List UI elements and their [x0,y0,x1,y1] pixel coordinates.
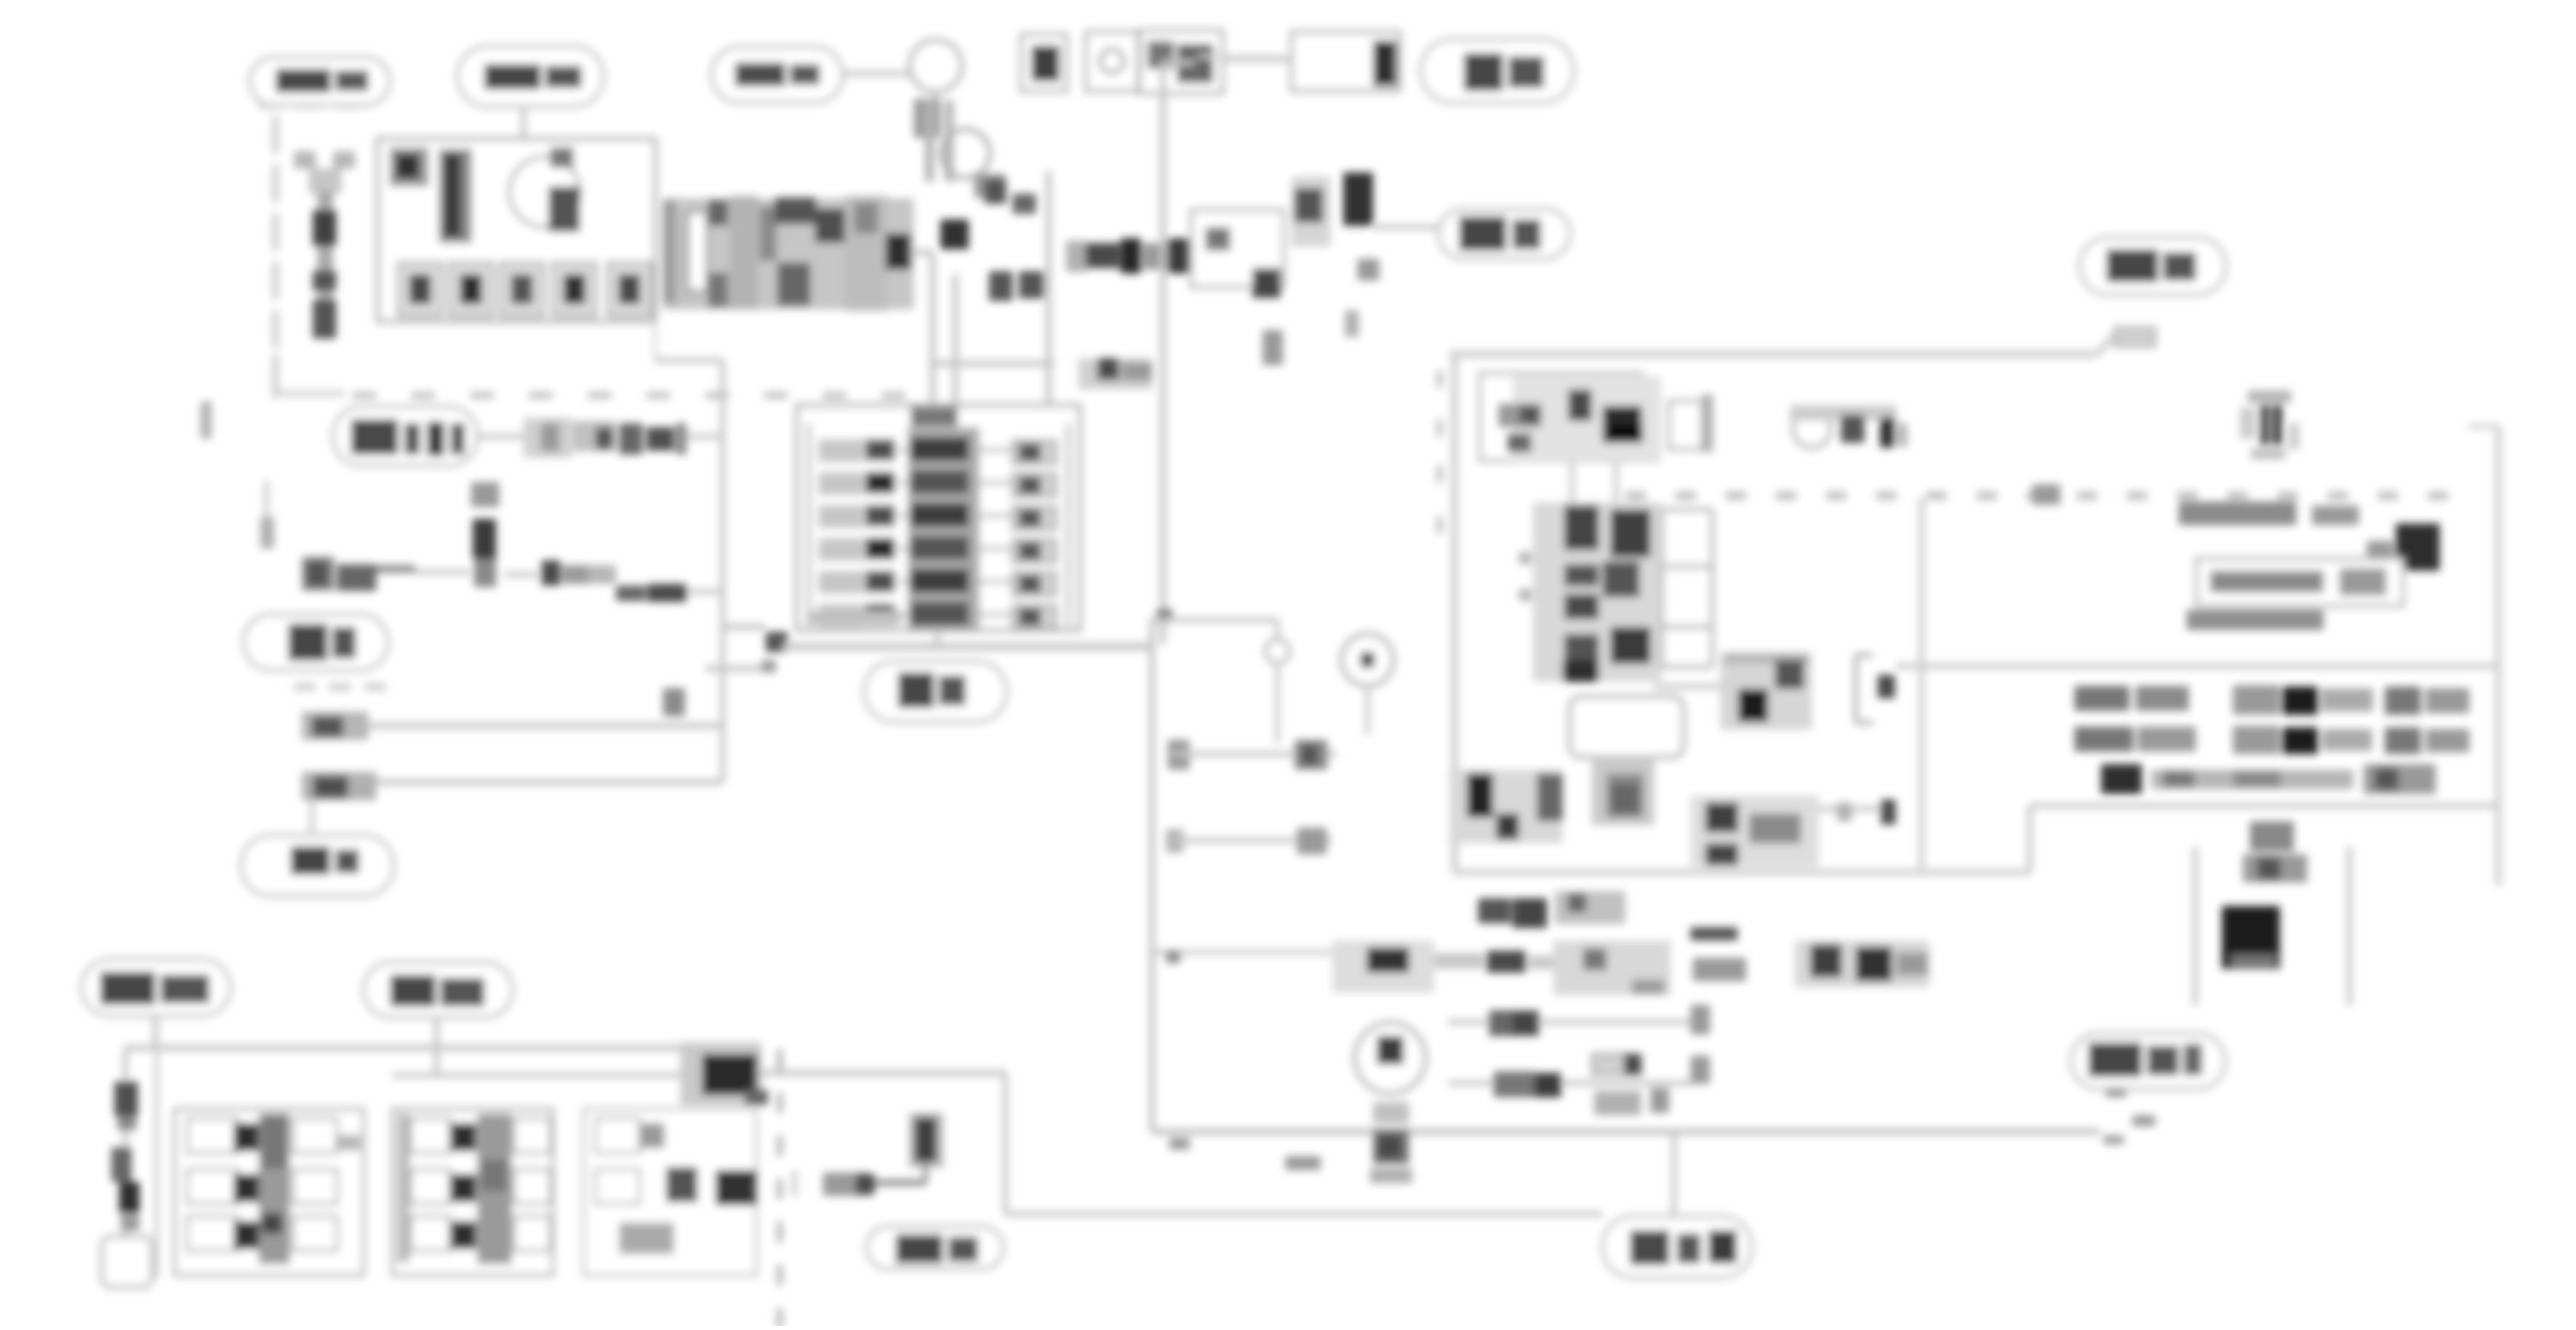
bracket rail right [1045,171,1052,405]
wire from starter to bracket [911,249,934,255]
wire below lamp E1 [914,92,940,138]
instrument cluster right column blobs [1603,509,1650,664]
horn component [2240,390,2299,459]
fuse box center column [908,427,980,629]
riser wires into instrument cluster [1572,461,1616,502]
gauge circle with mark [1342,634,1393,735]
connector label oval B14 [1439,209,1570,259]
chain below frame part5 [1795,940,1929,988]
connector label oval B88 [458,46,603,107]
oval label B101 bottom right [2071,1034,2225,1089]
gray square unit [1592,756,1654,825]
wire stub below oval B88 [521,107,527,141]
bottom wire to oval B125 area [1005,1212,1603,1217]
frame top wire [1450,351,2097,358]
instrument cluster left column blobs [1563,506,1599,682]
inline blobs on left edge [111,1082,139,1230]
dark wire segment to riser [616,584,723,602]
wire row2 to riser [368,723,723,729]
bracket rail left [929,255,936,405]
inline component T1 [524,418,572,458]
junction riser wire [720,361,726,782]
wire from lower cluster [1819,799,1896,824]
connector label oval ST50 [2080,237,2226,295]
row wire y1304 [1448,1005,1710,1036]
inline connector X9 [542,560,588,585]
ECU box A outline [378,139,655,321]
junction blob on riser [1157,609,1172,623]
wire to junction riser [687,434,723,440]
junction box C1 [175,1109,364,1275]
dark switch bar S2 [1343,172,1379,337]
frame left vertical [1451,354,1458,872]
dashed wire row right [1625,491,2448,500]
ECU internal circle [509,157,580,227]
indicator circle E5 [1266,640,1289,663]
dark blob below distributor [940,219,969,249]
lower right cluster [1690,795,1819,867]
inner vertical divider [1919,498,1925,868]
wire pair row2 [1166,828,1332,854]
row wire y1382 [1448,1056,1710,1097]
wire junction to corner [762,1070,1005,1076]
long vertical feed wire [1163,63,1194,644]
sender cluster row2 [302,712,368,740]
connector label oval B86 [244,614,388,670]
small cluster below [1594,1088,1669,1115]
marks below oval B101 [2103,1089,2155,1144]
wire cluster to relay [1654,684,1720,690]
long wire to right edge [1896,663,2498,669]
oval label B98 [867,1227,1003,1269]
ground dark blob [2222,906,2280,969]
left vertical edge [123,1048,129,1237]
connector label oval B87 [241,835,393,896]
connector label oval B46X [250,57,389,105]
vertical leader above E11 [260,480,274,549]
fuse box top blob [911,408,958,426]
small box row [1592,1054,1641,1075]
oval label B125 [1603,1216,1752,1277]
parallel leader line [154,1016,159,1277]
switch box S1 [1021,34,1067,91]
connector stack below gauge [1370,1102,1412,1183]
legend dark swatch [2367,524,2440,571]
inline connector row W1 [1066,238,1190,274]
oval label J6 below fuse box [864,661,1006,722]
junction box C3 partial [584,1109,756,1275]
wire from S2 to oval B14 [1373,225,1439,230]
ground symbol label AU [2243,821,2307,882]
blobs on bottom bus [1169,1138,1321,1170]
wire from riser to chain [1152,951,1348,963]
ground cluster E11 [302,556,376,591]
ignition switch with key [1790,405,1908,448]
legend row3 [2101,764,2436,794]
ECU bottom connector row [398,263,651,316]
lamp circle E1 [910,40,962,92]
chain below frame part2 [1332,940,1555,993]
junction box C1 center column [259,1114,290,1264]
connector label oval B57 [1421,39,1574,103]
bracket bottom bar [929,361,1055,367]
junction box C2 rows [397,1114,550,1263]
ECU internal dark mark [549,187,580,232]
short dashed wire top right [1198,55,1283,59]
legend row2 [2074,726,2469,754]
component K3 [1292,176,1331,247]
small rounded box bottom left [102,1237,152,1287]
relay box K2 [1191,210,1284,298]
legend box [2197,559,2403,606]
fuse box bottom inner bar [806,611,902,625]
sensor box with circle B2 [1086,32,1138,91]
bracket blobs [989,271,1044,301]
dashed leader from oval B46X [272,116,345,398]
wire to indicator circle [1152,620,1277,639]
starter output dark terminal [886,234,911,270]
fuse box left inner rail [806,423,811,627]
relay lower middle [909,1113,944,1168]
junction dark cluster [680,1042,768,1105]
stub to oval B125 [1672,1132,1677,1216]
inline connector X8 [619,423,687,455]
cluster above fuse box right [1078,358,1152,390]
wire from B70M to lamp [842,71,911,77]
ground leader wires [2195,846,2350,1006]
branch wire below junction [705,660,776,672]
wire from B8 [505,572,539,578]
chain below frame part1 [1478,891,1625,928]
rounded unit box [1570,697,1683,757]
bus junction blob [766,632,788,652]
chain below frame part4 [1690,927,1746,981]
small white box right of switch [1669,401,1702,449]
oval label B92 [364,962,513,1017]
legend dash blob [2032,484,2060,505]
connector label oval B211 [333,407,477,466]
flasher relay cluster [1449,770,1563,843]
stub to oval B87 [310,800,314,835]
combination switch left blobs [1498,404,1542,452]
wire below indicator [1275,663,1280,743]
component box K9 [1139,31,1223,93]
starter motor M1 body [663,196,914,311]
relay K6 cluster [1720,653,1812,730]
bracket connector right [1856,655,1895,723]
frame bottom wire [1455,806,2498,872]
main horizontal bus [723,624,766,630]
stub below fuse box [935,630,940,647]
fuse rows [818,437,1056,629]
sensor stack B8 [471,482,499,587]
bracket rail inner [952,274,958,405]
fuse box right inner rail [1066,423,1071,627]
frame right vertical [2469,426,2498,886]
frame top end connector [2097,328,2155,354]
wire from B211 [477,434,549,440]
ECU internal vertical bar [439,149,472,243]
dashed wire row [353,392,905,399]
oval label B146X [82,959,230,1016]
stub below B92 [434,1017,440,1075]
corner riser down [1003,1073,1009,1214]
instrument cluster base [1533,502,1661,682]
distributor right cluster [974,174,1036,214]
component blob below chain [313,299,336,339]
legend title text [2179,502,2359,525]
right riser wire [1149,619,1155,1132]
junction box C2 [393,1109,553,1275]
chain below frame part3 [1553,940,1671,995]
bottom long bus [1152,1129,2100,1136]
ticks left of cluster [1519,552,1531,601]
combination switch dark core [1568,390,1643,443]
junction box C1 rows [187,1118,360,1251]
stub below B146X [153,1016,158,1048]
gray bar right of switch [1702,394,1713,452]
wire pair row1 [1168,740,1336,770]
fuse box outline [797,405,1080,630]
wire row3 to riser [376,779,723,785]
short dashes near B86 [294,683,386,690]
small blob below K2 [1263,330,1283,365]
sender cluster row3 [302,772,376,800]
connector label oval B70M [712,47,842,103]
wire between K9 and X5 [1223,57,1292,63]
stray blob left of B211 [201,401,212,439]
vertical fuse chain [313,191,336,331]
gauge circle lower [1355,1023,1426,1093]
junction box C2 center column [477,1114,512,1264]
stray connector blob left [663,688,685,716]
distributor circle [941,129,990,178]
ECU internal dark module [389,147,429,187]
dotted underline below oval B46X [259,103,360,109]
bottom-left bus lower [393,1073,697,1078]
combination switch cluster box [1480,373,1661,464]
main horizontal bus right [783,643,1152,651]
frame dashed parallel left [1437,371,1443,534]
legend row1 [2074,685,2469,715]
inline component T2 [573,421,616,451]
instrument cluster right ladder [1661,509,1712,667]
clamp connector below oval B46X [294,151,355,194]
dark wire from relay [795,1161,926,1197]
bottom-left bus upper [125,1045,697,1051]
dashed vertical line [777,1049,783,1328]
gray piece [588,565,616,584]
wire from E11 dark segment [376,569,470,572]
vertical wires above distributor [925,100,954,182]
wire from ECU bottom corner [655,321,723,361]
connector box X5 with dark pin [1292,32,1400,91]
legend subtitle text [2187,610,2324,630]
ECU internal small blob [550,147,574,168]
